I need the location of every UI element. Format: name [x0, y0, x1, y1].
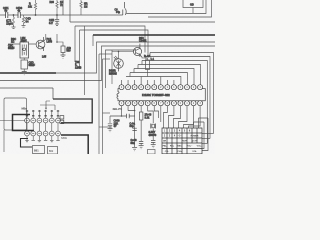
wire hook x93	[92, 35, 94, 46]
wire LED top	[118, 52, 120, 60]
box module B2	[48, 147, 58, 155]
pin circles bottom row	[119, 101, 203, 106]
wire fan f6	[130, 73, 187, 85]
ground for C206	[55, 24, 59, 26]
key matrix table	[162, 128, 203, 154]
wire pin2 stub	[128, 106, 135, 111]
op-amp IC1801 TC9028F-022	[117, 89, 205, 101]
capacitor C211	[6, 12, 8, 18]
thick hook lower	[21, 139, 33, 148]
wire left edge to connector	[0, 120, 25, 122]
capacitor C313 bars	[151, 140, 155, 142]
wire stub y127	[99, 126, 112, 128]
wire y13.5 right	[127, 0, 207, 14]
SAW filter F201	[20, 42, 29, 58]
wire pin1 down	[121, 106, 123, 116]
wire bus y26	[75, 26, 145, 53]
resistor R207 box	[61, 46, 65, 53]
box CP101 top right	[183, 0, 203, 8]
wire vertical x63	[62, 0, 64, 15]
wire vertical x75	[74, 26, 76, 62]
capacitor C206	[55, 15, 59, 24]
thick L wire left	[13, 115, 35, 131]
pin numbers bottom row	[121, 103, 202, 105]
wire y17 right	[148, 0, 212, 17]
table texts row5	[165, 151, 198, 153]
table texts row3	[163, 139, 198, 142]
resistor R204	[22, 15, 24, 25]
pin circles row1	[25, 118, 30, 123]
table texts row1	[164, 129, 191, 132]
ground C213	[22, 72, 27, 75]
ground pin3	[132, 148, 137, 151]
wire step s3	[141, 61, 143, 65]
wire fan f4	[138, 65, 201, 85]
capacitor C310 to ground	[108, 116, 112, 129]
wire y88 left	[0, 87, 53, 89]
wire vertical x79	[79, 30, 81, 68]
wire R308 down	[140, 120, 142, 141]
wire vertical x70 feed	[69, 0, 71, 22]
trimmer bars above row1	[26, 111, 59, 116]
wire fan f1	[150, 53, 214, 134]
transistor Q801	[133, 47, 141, 55]
wire pin8 to table	[164, 106, 168, 128]
wire vertical x99 long	[98, 54, 100, 154]
wire corner x99 y54	[99, 53, 112, 55]
pin bars row2	[26, 133, 59, 135]
wire y73 thick left	[0, 72, 56, 74]
component box bottom	[148, 150, 156, 155]
resistor R308 box	[140, 106, 142, 112]
wire right v3 into row	[202, 143, 207, 145]
wire table col8	[199, 118, 209, 128]
connector pin field	[25, 110, 61, 142]
wire collector up	[44, 34, 46, 41]
ground R207	[61, 53, 66, 59]
wire pin6 stub	[154, 106, 158, 118]
crystal X301	[151, 124, 156, 129]
capacitor C309 bars	[127, 114, 130, 118]
wire bus y35 thick	[93, 34, 215, 36]
paper noise	[0, 0, 1, 1]
wire step s6	[129, 73, 131, 77]
wire pin9 to table	[169, 106, 174, 128]
wire corner x102.5 y59	[103, 58, 111, 60]
wire pin7 down	[160, 106, 162, 122]
terminal square T2	[60, 120, 64, 123]
resistor R203 10k	[34, 0, 36, 15]
resistor R801 box	[146, 60, 150, 70]
terminal square T1	[60, 116, 64, 119]
wire table col7	[194, 122, 205, 128]
wire pin10 to table	[174, 106, 181, 128]
wire y116 with C309	[110, 115, 135, 117]
pin numbers top row	[121, 87, 202, 89]
wire right v1 into row	[202, 133, 214, 135]
wire emitter to resistor	[140, 55, 148, 60]
ground C313	[151, 142, 156, 147]
node C junction	[56, 14, 58, 16]
capacitor C208 series on top rail	[123, 2, 126, 15]
wire fan f7	[126, 77, 181, 85]
wire y93 corner	[52, 88, 54, 99]
LED D801	[114, 59, 124, 69]
table texts row2	[164, 134, 199, 137]
wire step s2	[145, 57, 147, 61]
wire filter to base	[29, 43, 37, 45]
resistor R206 10k	[56, 0, 58, 15]
wire pin12 to table	[184, 106, 194, 128]
wire left edge down	[3, 130, 5, 152]
ground for R204	[22, 26, 26, 28]
table grid	[162, 128, 202, 154]
wire base rail y51.5	[112, 51, 134, 53]
wire fan f3	[142, 61, 207, 144]
wire step s5	[133, 69, 135, 73]
wire riser w1 y73 to y42	[55, 42, 215, 73]
tuner box	[4, 98, 27, 130]
wire into filter	[8, 43, 20, 45]
grounds under row2	[25, 136, 53, 142]
wire stub box to y13	[192, 8, 194, 14]
wire collector node	[57, 34, 63, 46]
switch circuit above connector	[40, 101, 55, 110]
pin bars row1	[26, 120, 59, 122]
pin circles top row	[119, 85, 203, 90]
ground C312	[139, 143, 144, 148]
wire right v2 into row	[202, 138, 210, 140]
capacitor C212	[18, 12, 20, 18]
ground for L211	[12, 27, 16, 29]
wire main IF input rail	[0, 14, 123, 16]
wire riser w3 y50	[106, 50, 136, 88]
node LED junction	[118, 51, 120, 53]
capacitor C311 series bars	[132, 128, 136, 130]
wire step s4	[137, 65, 139, 69]
wire vertical x112	[111, 50, 113, 84]
node A junction	[13, 14, 15, 16]
wire riser w2 y80.5 to y46	[0, 46, 215, 81]
thick bus row2	[61, 135, 88, 154]
wire vertical x84	[84, 26, 86, 95]
box module B1	[33, 146, 45, 154]
wire stub y113	[103, 112, 111, 114]
inductor L211	[13, 15, 15, 27]
wire fan f5	[134, 69, 194, 85]
capacitor C213	[21, 60, 28, 69]
node B junction	[35, 14, 37, 16]
capacitor C312 bars	[139, 141, 143, 143]
wire bus y30	[80, 30, 149, 57]
wire step s1	[149, 53, 151, 57]
wire pin3 down long	[134, 106, 136, 147]
ground C310	[108, 129, 113, 132]
IC body	[117, 89, 205, 101]
wire fan f2	[146, 57, 210, 139]
thick bus to box	[53, 99, 92, 123]
resistor NR 1M	[80, 0, 82, 15]
wire resistor down	[147, 70, 149, 77]
table texts row4	[163, 145, 204, 148]
wire pin11 to table	[179, 106, 188, 128]
links between rows	[27, 123, 58, 131]
pin stubs top row	[122, 77, 174, 85]
wire crystal down	[152, 129, 154, 141]
wire pin13 to table	[189, 106, 201, 128]
wire pin5 down to crystal	[148, 106, 154, 123]
transistor Q201	[36, 40, 45, 49]
pin circles row2	[25, 131, 30, 136]
wire bus y22	[70, 21, 215, 23]
wire vertical x102.5 long	[102, 59, 104, 154]
wire right v4 into row	[202, 118, 208, 151]
